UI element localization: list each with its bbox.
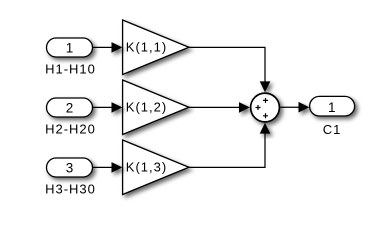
inport block 3: [47, 158, 93, 177]
arrowhead into gain3: [112, 162, 123, 173]
svg-text:C1: C1: [323, 122, 342, 137]
wire gain2 to sum (left input): [189, 106, 240, 108]
wire sum to outport: [280, 106, 299, 108]
svg-text:1: 1: [328, 100, 337, 115]
gain block K(1,1): [123, 20, 189, 75]
sum block U1: [251, 93, 280, 122]
wire inport3 to gain3: [93, 166, 113, 168]
svg-text:2: 2: [66, 100, 75, 115]
gain block K(1,2): [123, 80, 189, 135]
svg-text:K(1,2): K(1,2): [126, 100, 167, 115]
svg-text:1: 1: [66, 40, 75, 55]
outport block C1: [310, 96, 355, 116]
arrowhead into gain2: [112, 102, 123, 113]
sum plus sign (top input): [263, 98, 268, 103]
arrowhead into sum left: [239, 102, 250, 113]
arrowhead into gain1: [112, 42, 123, 53]
inport block 2: [47, 98, 93, 117]
sum plus sign (bottom input): [263, 113, 268, 118]
svg-text:K(1,3): K(1,3): [126, 160, 167, 175]
gain block K(1,3): [123, 140, 189, 195]
arrowhead into outport: [299, 102, 310, 113]
svg-text:H1-H10: H1-H10: [45, 61, 96, 76]
wire inport2 to gain2: [93, 106, 113, 108]
wire gain1 to sum (top input): [189, 47, 265, 82]
arrowhead into sum top: [260, 81, 271, 92]
wire inport1 to gain1: [93, 46, 113, 48]
arrowhead into sum bottom: [260, 123, 271, 134]
svg-text:H2-H20: H2-H20: [45, 121, 96, 136]
svg-text:K(1,1): K(1,1): [126, 40, 167, 55]
svg-text:3: 3: [66, 160, 75, 175]
sum plus sign (left input): [256, 105, 261, 110]
wire gain3 to sum (bottom input): [189, 133, 265, 167]
svg-text:H3-H30: H3-H30: [45, 181, 96, 196]
inport block 1: [47, 38, 93, 57]
